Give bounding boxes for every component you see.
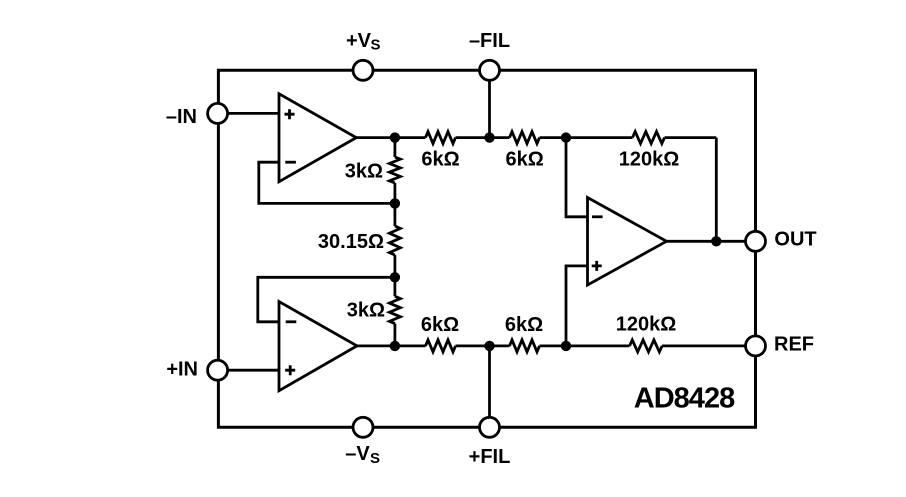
terminal pin -FIL	[480, 60, 500, 80]
wire: A3 noninverting input down to bottom row	[566, 266, 588, 346]
wire: A3 output to OUT terminal	[667, 240, 756, 243]
resistor 120k (top feedback)	[633, 132, 665, 144]
wire: A2 feedback from inverting input up to node B	[258, 277, 395, 322]
resistor 30.15 ohm gain resistor	[389, 226, 400, 255]
svg-text:S: S	[370, 450, 380, 467]
wire: bottom row drop to +FIL	[488, 346, 491, 427]
op-amp A2 (bottom input amplifier)	[279, 302, 357, 391]
terminal pin REF	[746, 336, 766, 356]
op-amp A3 (output difference amplifier)	[588, 198, 667, 286]
svg-text:3kΩ: 3kΩ	[345, 161, 383, 183]
wire: -IN to A1 noninverting input	[228, 112, 280, 115]
node A: 3k/30.15 junction	[390, 198, 400, 208]
wire: +IN to A2 noninverting input	[228, 369, 280, 372]
svg-text:6kΩ: 6kΩ	[421, 148, 459, 170]
svg-text:+IN: +IN	[166, 358, 198, 380]
node: A3 noninverting junction	[561, 341, 571, 351]
svg-text:–V: –V	[345, 443, 370, 465]
terminal pin +FIL	[480, 417, 500, 437]
resistor 3k (bottom, between node B and A2 output)	[389, 296, 400, 323]
op-amp A1 (top input amplifier)	[279, 94, 356, 182]
wire: bottom resistor row from A2 output to REF	[357, 344, 746, 347]
svg-text:S: S	[371, 37, 381, 54]
svg-text:AD8428: AD8428	[634, 383, 735, 415]
terminal pin OUT	[746, 231, 766, 251]
wire: A3 feedback vertical drop to output node	[715, 138, 718, 242]
svg-text:–FIL: –FIL	[469, 30, 510, 52]
wire: top resistor row from A1 output	[356, 136, 716, 139]
svg-text:–IN: –IN	[166, 106, 197, 128]
resistor 6k (top row, first)	[426, 132, 456, 144]
terminal pin +VS	[353, 60, 373, 80]
svg-text:REF: REF	[774, 334, 814, 356]
wire: A1 feedback from inverting input down to node A	[259, 162, 395, 203]
node: A2 output / bottom row	[390, 341, 400, 351]
svg-text:6kΩ: 6kΩ	[421, 314, 459, 336]
svg-text:6kΩ: 6kΩ	[505, 314, 543, 336]
resistor 3k (top, between A1 output and node A)	[389, 157, 400, 183]
node: +FIL junction on bottom row	[484, 341, 494, 351]
terminal pin -IN	[208, 103, 228, 123]
svg-text:30.15Ω: 30.15Ω	[318, 231, 384, 253]
svg-text:3kΩ: 3kΩ	[347, 300, 385, 322]
node: A3 inverting input junction	[561, 132, 571, 142]
wire: -FIL drop to top resistor row	[488, 70, 491, 137]
terminal pin -VS	[353, 417, 373, 437]
node B: 30.15/3k junction	[390, 272, 400, 282]
wire: top row to A3 inverting input	[566, 138, 588, 217]
resistor 6k (top row, second)	[510, 132, 540, 144]
svg-text:6kΩ: 6kΩ	[505, 148, 543, 170]
svg-text:+V: +V	[346, 30, 372, 52]
svg-text:OUT: OUT	[774, 229, 816, 251]
outer boundary box of AD8428	[218, 70, 755, 427]
resistor 120k (bottom, to REF)	[630, 340, 663, 352]
node: A3 output / feedback junction	[711, 236, 721, 246]
wire: center gain network column	[393, 138, 396, 346]
node: -FIL junction on top row	[484, 132, 494, 142]
resistor 6k (bottom row, second)	[510, 340, 540, 352]
node: A1 output / top row	[390, 132, 400, 142]
svg-text:120kΩ: 120kΩ	[619, 148, 680, 170]
svg-text:120kΩ: 120kΩ	[616, 314, 677, 336]
terminal pin +IN	[208, 360, 228, 380]
resistor 6k (bottom row, first)	[426, 340, 456, 352]
svg-text:+FIL: +FIL	[469, 446, 511, 468]
